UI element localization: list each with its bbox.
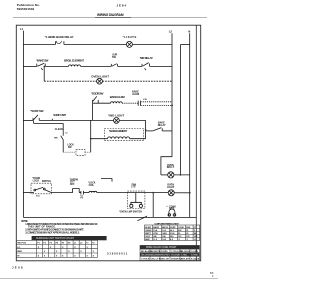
lamp oven lamp DS2 (97, 78, 103, 84)
wire row6 mid2 (79, 192, 81, 194)
switch chart table (16, 240, 97, 257)
svg-text:T-TAN: T-TAN (181, 254, 187, 257)
svg-text:L1: L1 (20, 27, 24, 31)
svg-text:BROIL: BROIL (162, 227, 169, 229)
svg-text:4 W: 4 W (143, 98, 147, 101)
svg-text:LIGHT: LIGHT (167, 186, 175, 189)
svg-text:SURFACE UNIT SWITCH CHART: SURFACE UNIT SWITCH CHART (36, 237, 75, 240)
bottom rail wire (23, 216, 196, 218)
wire N feed vertical (179, 45, 181, 175)
page edge line right (195, 25, 197, 261)
node junction row2 drop (43, 66, 45, 68)
corner mark bottom right (210, 272, 214, 278)
svg-text:SURF: SURF (170, 227, 176, 229)
svg-text:SURF UNIT: SURF UNIT (53, 113, 66, 117)
svg-text:DBL-DK: DBL-DK (161, 259, 169, 261)
header separator rule (13, 16, 207, 18)
switch chart cell marks (37, 242, 95, 258)
wire stub horizontal (34, 122, 64, 124)
bus L2 (171, 33, 173, 157)
svg-text:BL-BLUE: BL-BLUE (181, 251, 191, 253)
wire clean vertical upper (62, 123, 64, 135)
label relay K3 (158, 122, 166, 127)
wire row4 lower branch (141, 104, 173, 106)
svg-text:LO: LO (17, 247, 20, 249)
svg-text:*1 HERE BAKE RELAY: *1 HERE BAKE RELAY (45, 35, 74, 39)
label thermal cutoff (70, 179, 78, 186)
table B text (141, 250, 198, 253)
node junction branch (152, 192, 154, 194)
page frame (16, 25, 200, 261)
wire row3 left (23, 119, 33, 121)
node junction switch tee (145, 129, 147, 131)
wire row1 left (23, 43, 55, 45)
wire lock out (85, 151, 91, 153)
switch on bottom rail (137, 216, 146, 221)
wire row2b right (102, 80, 172, 82)
switch clean S5 (61, 136, 64, 140)
wire row2 mid3 (118, 65, 142, 67)
svg-text:3 1 9 5 0 5 0 1 1: 3 1 9 5 0 5 0 1 1 (107, 251, 128, 255)
lamp element in box left (130, 202, 133, 207)
connector ticks row6 (81, 191, 84, 195)
svg-text:G-GRN: G-GRN (191, 251, 198, 253)
svg-text:MED: MED (17, 251, 22, 253)
header publication text (17, 3, 40, 11)
svg-text:WIRE COLOR CODE CHART: WIRE COLOR CODE CHART (146, 246, 177, 249)
svg-text:ELEM: ELEM (145, 227, 151, 229)
label lock coil (88, 183, 96, 187)
wire vertical x91 (90, 120, 92, 152)
wire lamp DS5 right (174, 174, 190, 176)
svg-text:PR-PRPL: PR-PRPL (161, 255, 171, 257)
svg-text:OR-ORNG: OR-ORNG (141, 255, 151, 257)
table B dark row (140, 253, 200, 257)
fold line bottom (0, 277, 218, 279)
svg-text:3. CONNECTIONS MAY NOT APPEAR: 3. CONNECTIONS MAY NOT APPEAR ON ALL MOD… (25, 232, 80, 235)
switch surface S4 (33, 115, 39, 121)
svg-text:V-VIOLET: V-VIOLET (141, 259, 151, 261)
svg-text:FAN: FAN (186, 226, 191, 229)
wire switch feed (146, 130, 153, 132)
lamp indicator DS3 (114, 118, 120, 124)
svg-text:*LI2HTS: *LI2HTS (123, 35, 137, 39)
svg-text:OHMS: OHMS (145, 230, 152, 232)
label door lock switch (32, 178, 40, 182)
wire row2b drop (43, 66, 45, 81)
tee in fan box (131, 193, 142, 203)
switch bake S1 (37, 63, 45, 70)
arrow mark clean (54, 137, 57, 139)
switch in lock box (31, 187, 52, 192)
wire stub L (101, 179, 112, 182)
svg-text:BR-BRWN: BR-BRWN (151, 255, 161, 257)
wire row4 upper branch (141, 101, 172, 103)
svg-text:CONV: CONV (178, 227, 185, 229)
chart title bar (32, 236, 107, 240)
svg-text:P-PINK: P-PINK (191, 255, 199, 257)
svg-text:OVEN LIGHT: OVEN LIGHT (91, 74, 109, 78)
motor M1 (168, 209, 176, 216)
svg-text:LOCK: LOCK (33, 181, 40, 183)
wire corner down right (145, 120, 147, 138)
wire color table B header (140, 245, 200, 249)
coil lock row6 (89, 191, 97, 192)
node junction bake box feed (90, 138, 92, 140)
node junction N row6 (189, 192, 191, 194)
label connector row4 (132, 90, 139, 95)
connector tick row3 (51, 119, 53, 121)
svg-text:*OVEN LMP SWITCH: *OVEN LMP SWITCH (119, 212, 143, 214)
label switch S2 (112, 54, 118, 59)
svg-text:WIRING DIAGRAM: WIRING DIAGRAM (97, 13, 124, 17)
wire clean vertical lower (62, 140, 64, 152)
svg-text:JE84: JE84 (117, 4, 127, 8)
wire color table B (140, 245, 200, 260)
bus L1 (22, 31, 24, 218)
svg-text:WATT: WATT (145, 232, 151, 235)
svg-text:*DOOR SW: *DOOR SW (91, 92, 103, 96)
svg-text:*BAKE SW: *BAKE SW (36, 58, 48, 62)
svg-text:5995304539: 5995304539 (17, 7, 35, 11)
svg-text:*BAKE ELEMENT: *BAKE ELEMENT (109, 129, 127, 133)
bus N (189, 33, 191, 217)
wire lock row dotted (63, 151, 76, 153)
wire row1 right (132, 43, 172, 45)
door lock switch box dashed (31, 183, 52, 194)
wire stub down (33, 120, 35, 123)
component table A (145, 225, 200, 241)
wire row6 mid4 (97, 192, 168, 194)
wire row6 mid1 (52, 192, 73, 194)
label lamp DS4 (167, 184, 175, 189)
switch door S3 (93, 96, 99, 103)
label fan lts (131, 183, 136, 188)
wire row4 left (93, 102, 111, 104)
svg-text:AMP: AMP (145, 238, 150, 241)
svg-text:A-AQUA: A-AQUA (191, 258, 200, 261)
wire row4 dotted mid (122, 102, 138, 104)
wire row2 left (23, 65, 36, 67)
wire L2 bend (161, 157, 172, 175)
svg-text:SW POS: SW POS (17, 243, 26, 245)
svg-text:CLEAN: CLEAN (55, 128, 63, 131)
svg-text:BAKE: BAKE (153, 226, 159, 229)
svg-text:SWITCH: SWITCH (42, 181, 51, 183)
heating element broil coil (69, 65, 81, 66)
svg-text:W-WHITE: W-WHITE (151, 251, 161, 253)
wire vertical below S3 to row3 (92, 103, 94, 120)
wire row2 mid2 (81, 65, 112, 67)
wire row2 mid1 (45, 65, 68, 67)
wire row6 mid3 (83, 192, 89, 194)
wire row1 mid (64, 43, 127, 45)
svg-text:ELEM: ELEM (133, 93, 140, 96)
fan lights box dashed (127, 191, 145, 208)
wire row3 right (119, 119, 145, 121)
svg-text:OFF: OFF (70, 184, 75, 186)
svg-text:*IND LIGHT: *IND LIGHT (108, 113, 124, 117)
wire row6 left (23, 192, 31, 194)
table A text (145, 226, 198, 241)
svg-text:BROIL ELEMENT: BROIL ELEMENT (64, 58, 84, 62)
node junction feed DS5 (180, 174, 182, 176)
heating element bake coil row4 (111, 102, 123, 103)
label connector row6 (80, 195, 84, 200)
svg-text:S-SLATE: S-SLATE (181, 258, 190, 261)
label lamp DS5 (167, 164, 175, 169)
wire branch to rail (152, 193, 154, 218)
svg-text:RELAY: RELAY (158, 124, 166, 127)
wire row5 into box (91, 138, 108, 140)
svg-text:*SURF SW: *SURF SW (30, 109, 43, 113)
svg-text:*BR RELAY: *BR RELAY (140, 56, 153, 60)
lamp oven ind DS5 (168, 172, 174, 178)
lamp element in box right (139, 202, 142, 207)
label lock sw (67, 144, 74, 148)
thermal cutoff bump (73, 189, 80, 193)
svg-text:BAKE ELEM: BAKE ELEM (110, 95, 126, 99)
wire into lamp DS5 (161, 174, 168, 176)
lamp oven light DS4 (168, 190, 174, 196)
bake element box dashed (104, 129, 143, 141)
heating element coil in box (108, 137, 130, 139)
node junction row4 L2 (171, 105, 173, 107)
connector ticks row4 (138, 101, 140, 106)
svg-text:VOLT: VOLT (145, 236, 151, 238)
relay contact K3 (153, 128, 172, 131)
svg-text:L2: L2 (169, 30, 173, 34)
wire row2 right (150, 65, 172, 67)
switch chart row labels (17, 243, 26, 258)
svg-text:LTS: LTS (131, 187, 136, 189)
wire N feed horizontal (180, 44, 189, 46)
wire row2b horizontal (44, 80, 96, 82)
svg-text:COIL: COIL (89, 185, 95, 187)
wire lamp DS4 to N (174, 192, 190, 194)
lamp oven light DS1 (126, 41, 132, 47)
svg-text:R-RED: R-RED (161, 251, 168, 253)
label conv motor (169, 205, 176, 210)
relay contact K1 (56, 41, 64, 45)
lock motor box dashed (76, 149, 85, 155)
svg-text:IND LT: IND LT (167, 166, 175, 169)
svg-text:N: N (188, 30, 190, 34)
relay contact K2 (142, 63, 150, 71)
wire row3 mid (39, 119, 113, 121)
wire row5 out of box (130, 138, 146, 140)
svg-text:N.O.: N.O. (36, 196, 41, 198)
svg-text:GY-GRAY: GY-GRAY (171, 254, 181, 257)
switch S2 (111, 64, 117, 67)
